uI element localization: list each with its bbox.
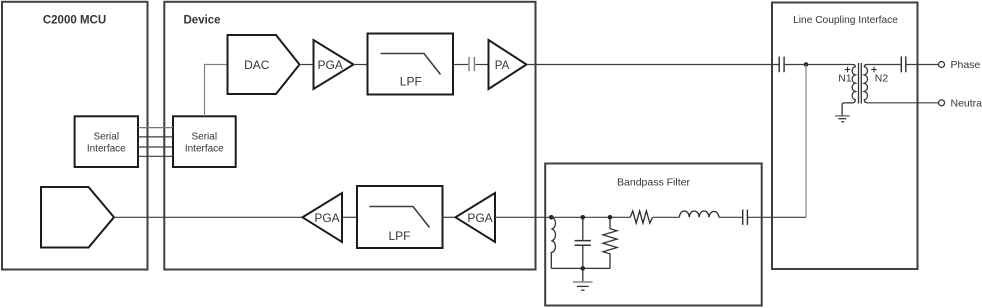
DAC [228, 35, 300, 94]
wire PGA-LPF rx [342, 216, 357, 218]
svg-text:Serial: Serial [192, 132, 218, 143]
inductor series L2 [679, 211, 719, 217]
svg-text:PGA: PGA [314, 211, 339, 225]
wire BPF bottom [551, 267, 610, 269]
svg-text:Serial: Serial [94, 132, 120, 143]
svg-text:PGA: PGA [318, 58, 343, 72]
label plus N1 [845, 67, 851, 73]
svg-text:C2000 MCU: C2000 MCU [43, 15, 106, 27]
wire cap-PA [476, 64, 489, 66]
wire bandpass main [551, 216, 630, 218]
wire ADC to PGA rx [114, 216, 303, 218]
svg-text:LPF: LPF [388, 229, 410, 243]
wire secondary to neutral [867, 102, 939, 104]
transformer T1 secondary N2 [864, 65, 867, 103]
svg-text:DAC: DAC [244, 58, 270, 72]
svg-text:N1: N1 [838, 73, 852, 85]
capacitor series C2 [743, 210, 748, 225]
node BPF ground [581, 266, 586, 271]
inductor shunt L1 [551, 217, 555, 268]
wire L2-C2 [719, 216, 742, 218]
serial interface U-Device [173, 116, 236, 167]
amplifier PGA rx1 [456, 193, 496, 242]
block C2000 MCU [2, 2, 148, 270]
svg-text:Line Coupling Interface: Line Coupling Interface [793, 15, 898, 26]
capacitor C-line2 [901, 56, 906, 72]
wire PGA to bandpass [495, 216, 551, 218]
LPF rx [357, 186, 443, 248]
terminal Neutral [939, 100, 945, 106]
node BPF n2 [581, 215, 586, 220]
wire DAC-PGA [300, 64, 314, 66]
LPF tx [368, 34, 454, 95]
svg-text:Bandpass Filter: Bandpass Filter [617, 177, 690, 189]
wire R2-L2 [653, 216, 680, 218]
amplifier PGA rx2 [303, 193, 343, 242]
serial interface U-MCU [75, 116, 138, 167]
block Line Coupling Interface [772, 3, 918, 270]
wire PA to line coupling [527, 64, 779, 66]
svg-text:Interface: Interface [185, 143, 224, 154]
resistor shunt R1 [603, 217, 617, 268]
amplifier PA [489, 40, 527, 89]
label plus N2 [871, 67, 877, 73]
wire secondary to cap [866, 64, 901, 66]
svg-text:Device: Device [184, 15, 221, 27]
wire cap to phase [906, 64, 938, 66]
svg-text:Interface: Interface [87, 143, 126, 154]
ground transformer [835, 116, 850, 122]
transformer core [859, 63, 862, 104]
capacitor shunt C1 [575, 217, 591, 268]
block Bandpass Filter [545, 164, 762, 306]
block Device [164, 2, 535, 270]
wire cap to transformer [785, 64, 853, 66]
wire serial bus lines [138, 128, 173, 157]
wire LPF-cap [453, 64, 468, 66]
ADC pentagon MCU [41, 187, 114, 248]
terminal Phase [939, 62, 945, 68]
node junction top [804, 62, 809, 67]
transformer T1 primary N1 [842, 65, 855, 116]
svg-text:PGA: PGA [467, 211, 492, 225]
resistor series R2 [630, 211, 652, 223]
wire PGA-LPF [354, 64, 368, 66]
capacitor tx coupling [469, 57, 474, 71]
node BPF n3 [608, 215, 613, 220]
svg-text:Neutral: Neutral [951, 98, 982, 110]
wire serial-to-DAC [205, 65, 228, 117]
svg-text:LPF: LPF [400, 74, 422, 88]
amplifier PGA tx [314, 40, 354, 89]
capacitor C-line1 [779, 57, 784, 73]
ground BPF [573, 268, 593, 290]
wire LPF-PGA rx [443, 216, 456, 218]
svg-text:PA: PA [495, 60, 510, 72]
svg-text:Phase: Phase [951, 59, 981, 71]
wire feedback vertical [805, 65, 807, 218]
node BPF n1 [549, 215, 554, 220]
svg-text:N2: N2 [875, 73, 889, 85]
